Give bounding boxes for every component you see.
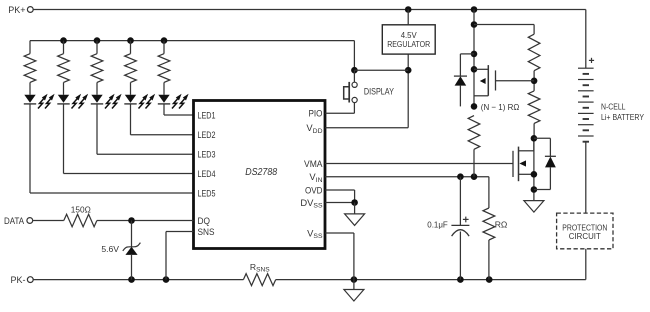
svg-text:SNS: SNS xyxy=(198,226,215,237)
svg-text:DISPLAY: DISPLAY xyxy=(364,87,394,97)
svg-text:DS2788: DS2788 xyxy=(245,167,277,178)
svg-text:PROTECTION: PROTECTION xyxy=(562,223,607,232)
svg-text:LED2: LED2 xyxy=(198,129,216,140)
svg-text:PK+: PK+ xyxy=(8,5,25,15)
svg-text:DATA: DATA xyxy=(4,216,24,226)
svg-text:(N − 1) RΩ: (N − 1) RΩ xyxy=(481,102,520,112)
svg-text:LED5: LED5 xyxy=(198,187,216,198)
svg-text:5.6V: 5.6V xyxy=(101,244,119,254)
svg-text:LED4: LED4 xyxy=(198,168,216,179)
svg-text:DQ: DQ xyxy=(198,215,211,226)
svg-text:PK-: PK- xyxy=(10,275,25,285)
svg-text:4.5V: 4.5V xyxy=(401,31,418,40)
svg-text:150Ω: 150Ω xyxy=(71,204,92,214)
svg-text:0.1μF: 0.1μF xyxy=(427,220,448,230)
svg-text:CIRCUIT: CIRCUIT xyxy=(569,232,601,241)
svg-text:VMA: VMA xyxy=(304,158,323,169)
svg-text:N-CELL: N-CELL xyxy=(601,102,626,112)
svg-text:Li+ BATTERY: Li+ BATTERY xyxy=(601,112,644,122)
svg-text:PIO: PIO xyxy=(309,108,323,119)
svg-text:LED3: LED3 xyxy=(198,149,216,160)
svg-text:OVD: OVD xyxy=(305,184,323,195)
svg-text:REGULATOR: REGULATOR xyxy=(387,40,430,49)
svg-text:LED1: LED1 xyxy=(198,109,216,120)
svg-text:RΩ: RΩ xyxy=(495,220,508,230)
